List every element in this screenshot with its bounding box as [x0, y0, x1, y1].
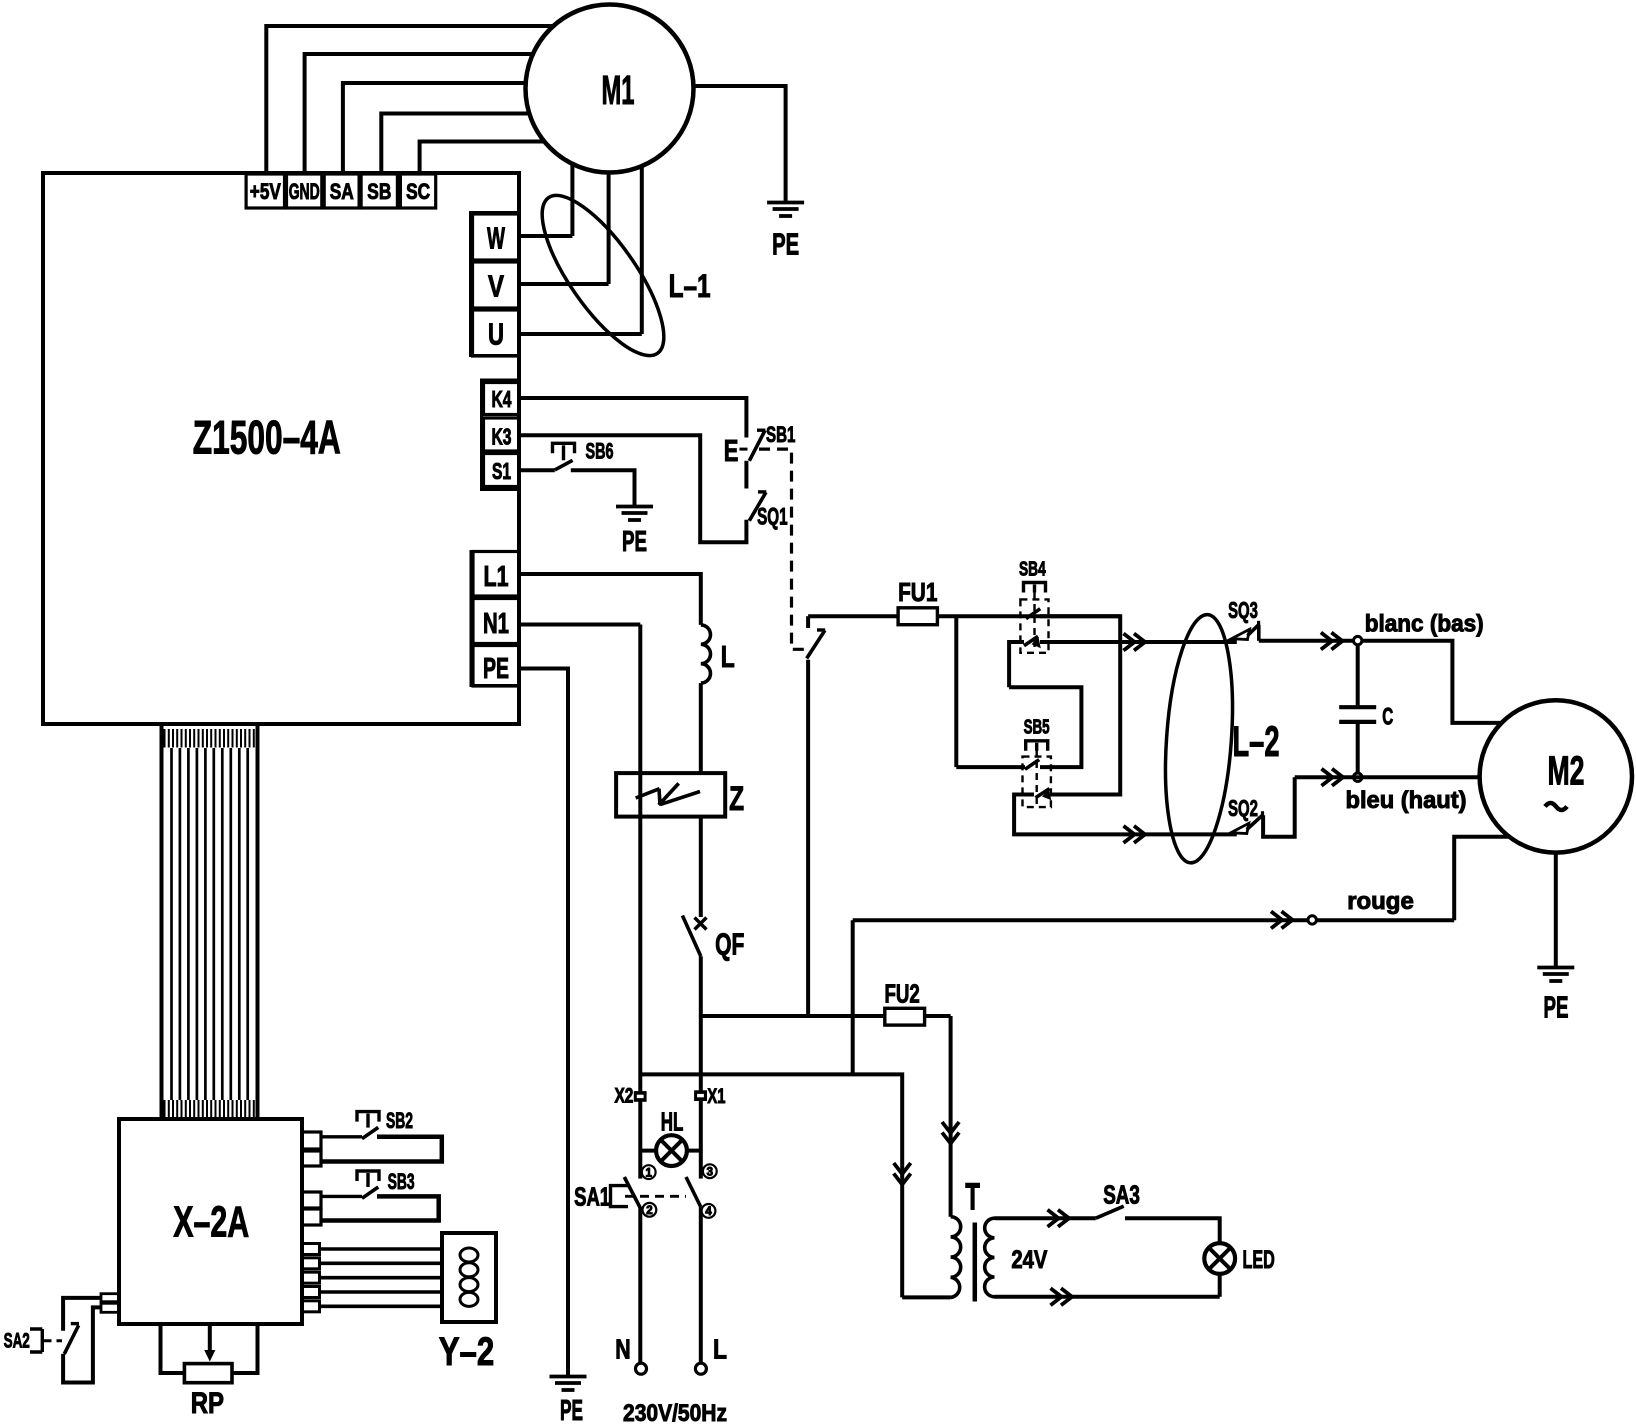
- svg-text:SQ3: SQ3: [1228, 597, 1258, 623]
- svg-text:L–2: L–2: [1233, 718, 1280, 766]
- svg-text:V: V: [488, 269, 504, 304]
- svg-text:SA3: SA3: [1103, 1180, 1140, 1210]
- svg-text:L1: L1: [484, 561, 509, 593]
- svg-text:SB5: SB5: [1024, 717, 1050, 739]
- svg-text:PE: PE: [622, 526, 647, 558]
- svg-text:X–2A: X–2A: [173, 1198, 249, 1246]
- svg-text:230V/50Hz: 230V/50Hz: [623, 1400, 727, 1427]
- svg-text:L: L: [721, 639, 735, 674]
- svg-text:SC: SC: [406, 179, 430, 204]
- svg-text:1: 1: [645, 1167, 652, 1179]
- svg-text:T: T: [965, 1176, 980, 1218]
- svg-text:PE: PE: [1544, 989, 1569, 1024]
- svg-text:PE: PE: [560, 1395, 583, 1427]
- svg-text:SB6: SB6: [586, 438, 614, 463]
- svg-text:S1: S1: [492, 458, 511, 484]
- svg-text:GND: GND: [289, 179, 320, 204]
- svg-text:K4: K4: [492, 386, 512, 412]
- svg-text:bleu (haut): bleu (haut): [1346, 787, 1467, 814]
- svg-text:+5V: +5V: [250, 179, 281, 204]
- svg-text:2: 2: [646, 1205, 652, 1217]
- svg-text:W: W: [487, 221, 505, 256]
- svg-text:X1: X1: [707, 1085, 725, 1108]
- svg-text:SB3: SB3: [388, 1169, 415, 1194]
- svg-text:N1: N1: [483, 608, 509, 640]
- svg-text:N: N: [615, 1333, 630, 1364]
- svg-text:PE: PE: [483, 653, 509, 685]
- svg-text:M1: M1: [602, 67, 635, 113]
- svg-text:blanc (bas): blanc (bas): [1365, 611, 1484, 638]
- svg-text:L: L: [713, 1333, 727, 1364]
- svg-text:SA1: SA1: [574, 1181, 610, 1211]
- svg-text:SQ2: SQ2: [1228, 795, 1258, 821]
- svg-text:SA2: SA2: [4, 1329, 30, 1353]
- svg-text:rouge: rouge: [1347, 888, 1414, 915]
- svg-text:QF: QF: [715, 927, 744, 962]
- svg-text:RP: RP: [191, 1387, 224, 1420]
- svg-text:C: C: [1382, 704, 1393, 731]
- svg-text:4: 4: [705, 1206, 712, 1218]
- svg-text:K3: K3: [492, 424, 512, 450]
- svg-text:LED: LED: [1243, 1246, 1275, 1274]
- svg-text:L–1: L–1: [669, 268, 711, 304]
- svg-text:FU1: FU1: [898, 577, 937, 607]
- svg-text:HL: HL: [661, 1107, 684, 1137]
- svg-text:SQ1: SQ1: [757, 504, 788, 531]
- svg-text:PE: PE: [772, 226, 799, 261]
- svg-text:SB: SB: [367, 179, 391, 204]
- svg-text:3: 3: [707, 1166, 713, 1178]
- svg-text:U: U: [488, 317, 504, 352]
- svg-text:SA: SA: [330, 179, 354, 204]
- svg-text:Z1500–4A: Z1500–4A: [193, 410, 341, 463]
- svg-text:SB2: SB2: [386, 1108, 413, 1133]
- svg-text:Y–2: Y–2: [439, 1330, 495, 1374]
- svg-text:E: E: [724, 433, 739, 468]
- svg-text:Z: Z: [729, 780, 744, 818]
- svg-text:M2: M2: [1548, 747, 1585, 793]
- svg-text:SB4: SB4: [1019, 559, 1046, 581]
- svg-text:24V: 24V: [1011, 1246, 1047, 1274]
- svg-text:FU2: FU2: [885, 979, 920, 1009]
- svg-text:X2: X2: [615, 1085, 634, 1108]
- svg-text:SB1: SB1: [766, 422, 795, 447]
